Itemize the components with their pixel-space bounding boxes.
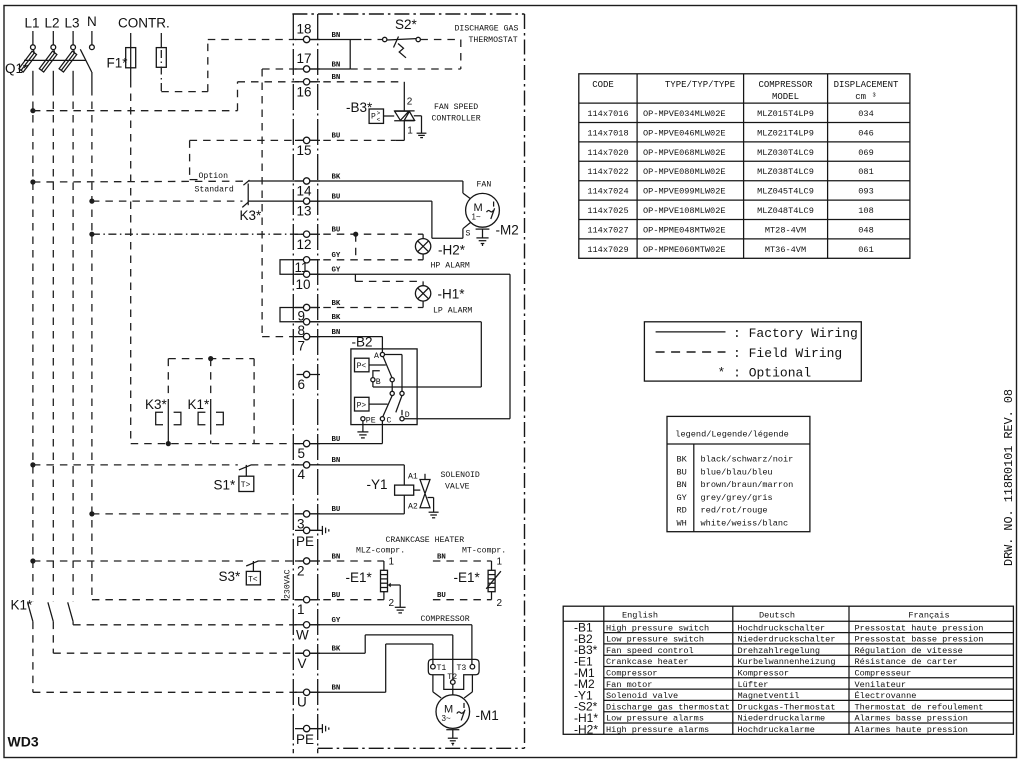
svg-text:093: 093 [858, 187, 873, 197]
svg-text:Drehzahlregelung: Drehzahlregelung [738, 646, 821, 656]
dashed return loop to t17 [420, 39, 460, 41]
svg-text:OP-MPME060MTW02E: OP-MPME060MTW02E [643, 245, 726, 255]
svg-text:DISPLACEMENT: DISPLACEMENT [834, 80, 899, 90]
svg-text:COMPRESSOR: COMPRESSOR [758, 80, 813, 90]
svg-text:BK: BK [332, 173, 341, 181]
svg-text:15: 15 [297, 143, 312, 158]
svg-text:T1: T1 [437, 664, 447, 673]
svg-text:BK: BK [677, 455, 688, 465]
contactor contacts K1* (3 poles) [11, 598, 74, 622]
svg-text:FAN: FAN [477, 181, 492, 190]
svg-text:<: < [377, 117, 381, 124]
svg-text:T2: T2 [447, 673, 457, 682]
wire: L1 option line [33, 180, 244, 183]
svg-text:Venilateur: Venilateur [855, 680, 907, 690]
svg-text:Kurbelwannenheizung: Kurbelwannenheizung [738, 657, 836, 667]
svg-text:Pressostat basse pression: Pressostat basse pression [855, 635, 984, 645]
svg-text:OP-MPME048MTW02E: OP-MPME048MTW02E [643, 225, 726, 235]
wire: N column [91, 88, 93, 600]
svg-text:P: P [371, 113, 376, 122]
svg-text:17: 17 [297, 51, 312, 66]
svg-text:VALVE: VALVE [445, 483, 470, 492]
svg-text:1: 1 [407, 126, 413, 137]
svg-text:CRANKCASE HEATER: CRANKCASE HEATER [386, 536, 465, 545]
wire t16 to triac [310, 81, 405, 83]
svg-text:048: 048 [858, 225, 873, 235]
svg-text:Hochdruckalarme: Hochdruckalarme [738, 725, 815, 735]
svg-text:Deutsch: Deutsch [759, 610, 795, 620]
terminal stubs [295, 40, 320, 729]
svg-text:W: W [296, 628, 309, 643]
svg-text:P<: P< [357, 362, 367, 371]
coil K3* [145, 397, 181, 444]
svg-text:C: C [387, 416, 392, 425]
svg-text:Niederdruckalarme: Niederdruckalarme [738, 714, 826, 724]
svg-text:D: D [405, 411, 410, 420]
svg-text:BU: BU [332, 227, 341, 235]
svg-text:: Factory Wiring: : Factory Wiring [733, 326, 858, 341]
svg-text:BU: BU [332, 133, 341, 141]
svg-text:S2*: S2* [395, 17, 418, 32]
wire: F1 control column [130, 80, 132, 444]
svg-text:CODE: CODE [592, 80, 614, 90]
wire W to T3 [310, 624, 472, 626]
svg-text:-H2*: -H2* [574, 722, 598, 736]
svg-text:10: 10 [296, 277, 311, 292]
svg-text:MLZ015T4LP9: MLZ015T4LP9 [757, 109, 814, 119]
svg-text:2: 2 [497, 598, 503, 609]
svg-text:S1*: S1* [214, 478, 237, 493]
svg-text:T>: T> [241, 481, 251, 490]
LP element P&lt; [355, 358, 370, 372]
svg-text:K3*: K3* [240, 208, 263, 223]
svg-text:GY: GY [332, 252, 341, 260]
crankcase heater E1* (MLZ) [310, 557, 406, 613]
svg-text:114x7022: 114x7022 [587, 167, 628, 177]
svg-text:Low pressure alarms: Low pressure alarms [606, 714, 704, 724]
svg-text:legend/Legende/légende: legend/Legende/légende [675, 430, 788, 440]
svg-text:16: 16 [297, 85, 312, 100]
wire: N to terminal 1 [92, 599, 303, 601]
svg-text:114x7027: 114x7027 [587, 225, 628, 235]
wire triac to t15 [396, 139, 404, 141]
svg-text:MLZ045T4LC9: MLZ045T4LC9 [757, 187, 814, 197]
blades to C and D [383, 396, 392, 417]
svg-text:2: 2 [407, 97, 413, 108]
terminal circles [303, 36, 309, 732]
wire: N to terminal 3 [92, 513, 303, 515]
wire: control line to terminal 5 (coil circuit) [131, 443, 304, 445]
svg-text:Discharge gas thermostat: Discharge gas thermostat [606, 702, 730, 712]
svg-text:K1*: K1* [188, 397, 211, 412]
dual pressure switch B2 [310, 335, 417, 444]
svg-text:Français: Français [908, 610, 949, 620]
svg-text:MODEL: MODEL [772, 92, 799, 102]
PE earth [362, 421, 364, 432]
svg-text:061: 061 [858, 245, 873, 255]
svg-text:108: 108 [858, 206, 873, 216]
svg-text:CONTROLLER: CONTROLLER [432, 115, 481, 124]
svg-text:BN: BN [332, 553, 341, 561]
svg-text:Pressostat haute pression: Pressostat haute pression [855, 623, 984, 633]
HP alarm lamp H2* [310, 232, 470, 271]
svg-text:1: 1 [497, 557, 503, 568]
svg-text:grey/grey/gris: grey/grey/gris [701, 493, 773, 503]
wire: L1 to terminal U [33, 691, 303, 693]
svg-text:BN: BN [332, 74, 341, 82]
compressor code table [579, 74, 910, 258]
changeover switch K3* [240, 180, 304, 223]
factory jumper 18-17 [349, 40, 351, 70]
wire: N standard line [92, 200, 243, 202]
svg-text:A2: A2 [408, 503, 418, 512]
svg-text:THERMOSTAT: THERMOSTAT [469, 36, 518, 45]
wire: L1 column [32, 88, 34, 692]
svg-text:High pressure switch: High pressure switch [606, 623, 709, 633]
wire t8 to B2 pin B [310, 322, 482, 387]
svg-text:OP-MPVE068MLW02E: OP-MPVE068MLW02E [643, 148, 726, 158]
svg-text:Fan speed control: Fan speed control [606, 646, 694, 656]
svg-text:-E1*: -E1* [346, 570, 373, 585]
svg-text:MLZ038T4LC9: MLZ038T4LC9 [757, 167, 814, 177]
svg-text:BU: BU [437, 592, 446, 600]
svg-text:Hochdruckschalter: Hochdruckschalter [738, 623, 826, 633]
coil K1* [188, 397, 224, 444]
svg-text:COMPRESSOR: COMPRESSOR [421, 615, 470, 624]
svg-text:BK: BK [332, 646, 341, 654]
wire t14 to motor [310, 180, 463, 182]
svg-text:Régulation de vitesse: Régulation de vitesse [855, 646, 963, 656]
wire: L2 column [52, 88, 54, 653]
svg-text:cm ³: cm ³ [855, 92, 877, 102]
svg-text:Magnetventil: Magnetventil [738, 691, 800, 701]
terminal numbers [295, 22, 315, 748]
svg-text:-M1: -M1 [476, 708, 499, 723]
svg-text:Solenoid valve: Solenoid valve [606, 691, 678, 701]
svg-text:PE: PE [296, 732, 314, 747]
svg-text:OP-MPVE108MLW02E: OP-MPVE108MLW02E [643, 206, 726, 216]
S lead from t13 [310, 200, 432, 202]
svg-text:HP ALARM: HP ALARM [431, 262, 470, 271]
legs into motor [432, 675, 434, 692]
svg-text:-H1*: -H1* [438, 287, 466, 302]
svg-text:PE: PE [296, 534, 314, 549]
svg-text:114x7025: 114x7025 [587, 206, 628, 216]
wire: terminal 17 feed down to terminal 7 [262, 69, 303, 337]
svg-text:GY: GY [332, 617, 341, 625]
svg-text:BK: BK [332, 300, 341, 308]
svg-text:Kompressor: Kompressor [738, 669, 790, 679]
terminal strip rail right [317, 14, 319, 753]
wire: L3 to terminal W [73, 624, 303, 626]
svg-text:A: A [374, 352, 379, 361]
svg-text:L1: L1 [25, 16, 40, 31]
svg-text:RD: RD [677, 506, 687, 516]
wire: L2 to terminal V [53, 652, 303, 654]
gate to earth [414, 115, 422, 117]
svg-text:brown/braun/marron: brown/braun/marron [701, 480, 794, 490]
svg-text:K3*: K3* [145, 397, 168, 412]
svg-text:1: 1 [389, 557, 395, 568]
svg-text:OP-MPVE099MLW02E: OP-MPVE099MLW02E [643, 187, 726, 197]
compressor motor M1 with terminal block [310, 625, 499, 746]
discharge gas thermostat S2* [310, 17, 519, 69]
solenoid valve Y1 [310, 465, 480, 518]
wire t3 to coil A2 [310, 513, 405, 515]
B to exit wire [372, 382, 374, 387]
svg-text:LP ALARM: LP ALARM [433, 307, 472, 316]
svg-text:OP-MPVE034MLW02E: OP-MPVE034MLW02E [643, 109, 726, 119]
svg-text:Alarmes haute pression: Alarmes haute pression [855, 725, 968, 735]
svg-text:FAN SPEED: FAN SPEED [434, 103, 478, 112]
svg-text:BU: BU [332, 592, 341, 600]
motor circle [436, 695, 470, 729]
mechanical link [24, 59, 86, 61]
control fuse (CONTR. right leg) [156, 33, 166, 92]
svg-text:blue/blau/bleu: blue/blau/bleu [701, 467, 773, 477]
svg-text:114x7016: 114x7016 [587, 109, 628, 119]
svg-text:7: 7 [298, 339, 306, 354]
svg-text:BN: BN [332, 329, 341, 337]
junction dots on L1/N columns [30, 108, 35, 113]
thermostat S1* [33, 465, 303, 493]
svg-text:L3: L3 [65, 16, 80, 31]
feed t7 to pin A [310, 336, 383, 338]
jumper link terminals 11-10 [280, 260, 305, 274]
svg-text:BU: BU [332, 506, 341, 514]
svg-text:114x7020: 114x7020 [587, 148, 628, 158]
earth symbol at terminal PE (upper) [310, 526, 329, 535]
svg-text:14: 14 [297, 184, 313, 199]
svg-text:Fan motor: Fan motor [606, 680, 652, 690]
svg-text:-Y1: -Y1 [367, 477, 388, 492]
fan motor M2 [310, 181, 519, 247]
wiring legend box [644, 322, 861, 381]
svg-text:white/weiss/blanc: white/weiss/blanc [701, 518, 789, 528]
svg-text:18: 18 [297, 22, 312, 37]
translation table [563, 606, 1013, 736]
svg-text:V: V [298, 656, 307, 671]
svg-text:* : Optional: * : Optional [718, 366, 812, 381]
A branch to right column [385, 354, 403, 356]
svg-text:BN: BN [332, 32, 341, 40]
terminal block [428, 659, 479, 689]
svg-text:B: B [376, 378, 381, 387]
svg-text:SOLENOID: SOLENOID [441, 471, 480, 480]
pressure sensor box [369, 109, 383, 123]
pole L2 [52, 31, 54, 45]
svg-text:Crankcase heater: Crankcase heater [606, 657, 689, 667]
svg-text:WH: WH [677, 518, 687, 528]
svg-text:N: N [87, 14, 97, 29]
svg-text:BN: BN [677, 480, 687, 490]
wire t4 to coil A1 [310, 464, 405, 466]
svg-text:BN: BN [332, 457, 341, 465]
svg-text:BU: BU [332, 193, 341, 201]
svg-text:MLZ048T4LC9: MLZ048T4LC9 [757, 206, 814, 216]
LP alarm lamp H1* [310, 274, 510, 315]
svg-text:MLZ021T4LP9: MLZ021T4LP9 [757, 128, 814, 138]
unit boundary (dash-dot) [292, 14, 524, 748]
svg-text:GY: GY [332, 267, 341, 275]
svg-text:Niederdruckschalter: Niederdruckschalter [738, 635, 836, 645]
svg-text:Low pressure switch: Low pressure switch [606, 635, 704, 645]
svg-text:red/rot/rouge: red/rot/rouge [701, 506, 768, 516]
wire: L3 column [72, 88, 74, 625]
svg-text:-E1*: -E1* [454, 570, 481, 585]
fuse F1* [107, 33, 136, 80]
C to t5 [381, 421, 383, 444]
svg-text:-H2*: -H2* [438, 243, 466, 258]
svg-text:8: 8 [298, 323, 306, 338]
svg-text:T<: T< [248, 575, 258, 584]
wire t18 to S2 [310, 39, 362, 41]
svg-text:5: 5 [298, 446, 306, 461]
svg-text:DISCHARGE GAS: DISCHARGE GAS [455, 25, 519, 34]
colour legend box [667, 416, 810, 531]
svg-text:CONTR.: CONTR. [118, 16, 170, 31]
svg-text:BU: BU [332, 436, 341, 444]
svg-text:: Field Wiring: : Field Wiring [733, 346, 842, 361]
svg-text:230VAC: 230VAC [284, 569, 293, 599]
crankcase heater E1* (MT) [433, 557, 503, 610]
blade A to LP contact [383, 356, 392, 377]
svg-text:13: 13 [297, 204, 312, 219]
svg-text:4: 4 [298, 467, 306, 482]
svg-text:3: 3 [297, 517, 305, 532]
svg-text:2: 2 [297, 564, 305, 579]
svg-text:A1: A1 [408, 473, 418, 482]
S2 blade and thermal actuator [387, 39, 416, 40]
svg-text:BN: BN [437, 553, 446, 561]
svg-text:Thermostat de refoulement: Thermostat de refoulement [855, 702, 984, 712]
svg-text:Compresseur: Compresseur [855, 669, 912, 679]
svg-text:S3*: S3* [219, 569, 242, 584]
svg-text:114x7024: 114x7024 [587, 187, 628, 197]
wire U to T1 [310, 691, 386, 693]
svg-text:MLZ-compr.: MLZ-compr. [356, 547, 405, 556]
sheath tap to earth [388, 583, 391, 588]
motor earth [476, 228, 490, 230]
svg-text:OP-MPVE046MLW02E: OP-MPVE046MLW02E [643, 128, 726, 138]
svg-text:034: 034 [858, 109, 873, 119]
svg-text:Alarmes basse pression: Alarmes basse pression [855, 714, 968, 724]
wire V to T2 [310, 652, 365, 654]
svg-text:2: 2 [389, 598, 395, 609]
svg-text:12: 12 [297, 237, 312, 252]
svg-text:MT36-4VM: MT36-4VM [765, 245, 806, 255]
svg-text:GY: GY [677, 493, 687, 503]
svg-text:BU: BU [677, 467, 687, 477]
svg-text:1~: 1~ [472, 213, 481, 222]
svg-text:English: English [622, 610, 658, 620]
svg-text:Standard: Standard [195, 185, 234, 195]
svg-text:9: 9 [298, 309, 306, 324]
svg-text:OP-MPVE080MLW02E: OP-MPVE080MLW02E [643, 167, 726, 177]
svg-text:U: U [297, 695, 307, 710]
disconnect switch Q1* [5, 31, 94, 88]
pole N blade [91, 31, 93, 45]
pole L3 [72, 31, 74, 45]
svg-text:114x7018: 114x7018 [587, 128, 628, 138]
svg-text:Électrovanne: Électrovanne [855, 690, 917, 701]
svg-text:MLZ030T4LC9: MLZ030T4LC9 [757, 148, 814, 158]
svg-text:046: 046 [858, 128, 873, 138]
svg-text:TYPE/TYP/TYPE: TYPE/TYP/TYPE [665, 80, 735, 90]
wire: N to terminal 12 (dash-dot alarm common) [92, 233, 303, 235]
svg-text:BN: BN [332, 61, 341, 69]
jumper link terminals 9-8 [280, 308, 305, 322]
svg-text:DRW. NO. 118R0101 REV. 08: DRW. NO. 118R0101 REV. 08 [1002, 389, 1016, 566]
svg-text:069: 069 [858, 148, 873, 158]
svg-text:081: 081 [858, 167, 873, 177]
svg-text:BK: BK [332, 314, 341, 322]
wire: L1 to terminal 16 (fan speed supply) [33, 82, 303, 111]
motor earth [446, 729, 459, 731]
hook at B [373, 371, 380, 378]
svg-text:MT28-4VM: MT28-4VM [765, 225, 806, 235]
svg-text:114x7029: 114x7029 [587, 245, 628, 255]
fan speed controller B3* [310, 82, 481, 141]
HP element P&gt; [355, 397, 370, 411]
pole L1 [32, 31, 34, 45]
svg-text:Option: Option [199, 171, 229, 181]
wire: control feed to terminal 18 [161, 40, 303, 92]
svg-text:black/schwarz/noir: black/schwarz/noir [701, 455, 794, 465]
svg-text:Lüfter: Lüfter [738, 680, 769, 690]
wire B2 pin D to t10 line [404, 274, 510, 419]
svg-text:-M2: -M2 [496, 223, 519, 238]
svg-text:MT-compr.: MT-compr. [462, 547, 506, 556]
valve body [414, 489, 421, 491]
svg-text:WD3: WD3 [8, 734, 39, 750]
svg-text:F1*: F1* [107, 56, 129, 71]
earth symbol at terminal PE (lower) [310, 724, 329, 733]
svg-text:Résistance de carter: Résistance de carter [855, 657, 958, 667]
svg-text:P>: P> [357, 402, 367, 411]
svg-text:3~: 3~ [442, 714, 451, 723]
thermostat S3* [33, 561, 303, 585]
wire: terminal 15 to option contact [190, 140, 304, 179]
svg-text:S: S [466, 230, 471, 239]
svg-text:T3: T3 [457, 664, 467, 673]
svg-text:High pressure alarms: High pressure alarms [606, 725, 709, 735]
svg-text:BN: BN [332, 685, 341, 693]
svg-text:11: 11 [295, 260, 309, 275]
svg-text:6: 6 [298, 377, 306, 392]
svg-text:1: 1 [297, 602, 305, 617]
wire colour labels [332, 32, 446, 693]
terminal strip rail left [292, 14, 294, 753]
svg-text:Compressor: Compressor [606, 669, 658, 679]
svg-text:Druckgas-Thermostat: Druckgas-Thermostat [738, 702, 836, 712]
svg-text:L2: L2 [45, 16, 60, 31]
svg-text:PE: PE [366, 416, 376, 425]
contactor coils box K3*/K1* [166, 356, 254, 446]
